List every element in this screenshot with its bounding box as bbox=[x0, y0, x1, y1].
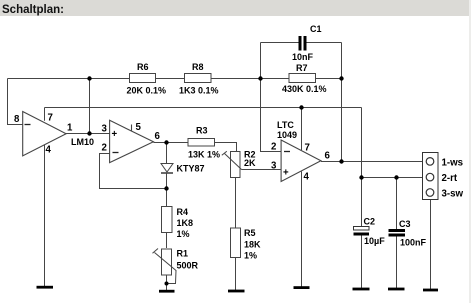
svg-text:7: 7 bbox=[48, 113, 53, 124]
wire C1 left lead bbox=[261, 42, 299, 44]
wire LTC pin7 bbox=[301, 108, 303, 151]
svg-text:+: + bbox=[112, 129, 118, 140]
svg-text:7: 7 bbox=[305, 143, 310, 154]
svg-text:4: 4 bbox=[304, 172, 310, 183]
wire node to connector pin2 bbox=[362, 177, 423, 179]
svg-text:20K 0.1%: 20K 0.1% bbox=[127, 86, 167, 96]
wire U2 output down to KTY87 bbox=[166, 143, 168, 164]
trimmer R2 bbox=[222, 151, 242, 177]
diode KTY87 bbox=[161, 164, 173, 174]
ground (LM10 pin4) bbox=[37, 286, 54, 289]
wire C1 right lead bbox=[307, 42, 342, 44]
wire left vertical to pin 8 bbox=[8, 79, 24, 125]
svg-text:R6: R6 bbox=[137, 62, 149, 72]
wire C3 to ground bbox=[396, 236, 398, 288]
svg-text:10nF: 10nF bbox=[292, 52, 314, 62]
svg-text:R7: R7 bbox=[296, 63, 308, 73]
svg-text:Schaltplan:: Schaltplan: bbox=[2, 4, 64, 16]
svg-text:3: 3 bbox=[102, 124, 108, 135]
node dot U2 output bbox=[164, 140, 168, 144]
op-amp U2 bbox=[110, 120, 154, 162]
svg-text:2K: 2K bbox=[244, 158, 256, 168]
op-amp U1 LM10 bbox=[23, 112, 66, 156]
wire LM10 pin4 to ground bbox=[44, 145, 46, 287]
svg-text:1-ws: 1-ws bbox=[442, 158, 464, 169]
svg-text:R4: R4 bbox=[177, 207, 189, 217]
svg-text:1%: 1% bbox=[244, 251, 257, 261]
svg-text:1%: 1% bbox=[177, 229, 190, 239]
node dot LTC output bbox=[339, 159, 343, 163]
wire R3 to R2 top bbox=[215, 143, 237, 152]
ground (connector) bbox=[423, 289, 438, 292]
svg-text:R8: R8 bbox=[192, 62, 204, 72]
svg-text:KTY87: KTY87 bbox=[177, 164, 205, 174]
svg-text:R3: R3 bbox=[196, 126, 208, 136]
svg-text:2: 2 bbox=[271, 142, 276, 153]
svg-text:C1: C1 bbox=[310, 24, 322, 34]
svg-text:13K 1%: 13K 1% bbox=[188, 150, 220, 160]
node dot C1 left bbox=[258, 76, 262, 80]
node dot C1 right bbox=[339, 76, 343, 80]
node dot R1 wiper bbox=[165, 282, 169, 286]
wire C2 to ground bbox=[361, 236, 363, 289]
wire right vertical C1 node to LTC output bbox=[341, 43, 343, 162]
wire LM10 pin7 tick bbox=[44, 108, 46, 121]
svg-text:100nF: 100nF bbox=[400, 238, 427, 248]
wire R2 to R5 bbox=[235, 178, 237, 229]
svg-text:10µF: 10µF bbox=[364, 236, 385, 246]
resistor R8 bbox=[185, 74, 212, 83]
wire pin7-net down to C2 bbox=[361, 108, 363, 227]
wire down to C3 bbox=[396, 178, 398, 230]
wire LTC pin4 to ground bbox=[301, 172, 303, 288]
trimmer R1 bbox=[153, 249, 177, 284]
node dot LTC pin7 bbox=[299, 105, 303, 109]
wire vertical R6-left to LM10 output bbox=[89, 79, 91, 134]
pin minus (U2) bbox=[113, 152, 119, 154]
wire KTY87 to R4 bbox=[166, 174, 168, 207]
svg-text:430K 0.1%: 430K 0.1% bbox=[282, 84, 327, 94]
svg-text:500R: 500R bbox=[177, 261, 199, 271]
wire main top net (R6/R8/R7 row) bbox=[8, 78, 342, 80]
resistor R4 bbox=[162, 207, 173, 233]
connector J1 bbox=[423, 153, 439, 200]
svg-text:4: 4 bbox=[46, 145, 52, 156]
svg-text:1K8: 1K8 bbox=[177, 218, 194, 228]
page right edge strip bbox=[469, 0, 471, 303]
svg-text:1049: 1049 bbox=[277, 130, 297, 140]
ground (LTC pin4) bbox=[294, 286, 310, 289]
svg-text:LTC: LTC bbox=[277, 120, 294, 130]
wire LTC pin2 up to C1 left node bbox=[261, 43, 282, 152]
svg-text:2-rt: 2-rt bbox=[442, 173, 458, 184]
wire R2 wiper to LTC pin3 bbox=[242, 169, 282, 171]
node dot C3 branch bbox=[394, 175, 398, 179]
svg-text:8: 8 bbox=[14, 114, 20, 125]
svg-text:2: 2 bbox=[102, 143, 107, 154]
pin minus (LTC) bbox=[284, 151, 290, 153]
wire U2 output to R3 bbox=[154, 142, 189, 144]
resistor R6 bbox=[130, 74, 156, 83]
wire R5 to ground bbox=[235, 258, 237, 291]
node dot KTY87 bottom bbox=[164, 186, 168, 190]
svg-text:6: 6 bbox=[155, 131, 161, 142]
capacitor C1 bbox=[299, 36, 307, 51]
resistor R5 bbox=[231, 228, 241, 258]
capacitor C2 bbox=[354, 227, 370, 236]
wire connector pin3 to ground bbox=[430, 200, 432, 290]
svg-text:+: + bbox=[283, 168, 289, 179]
pin minus (LM10) bbox=[25, 124, 31, 126]
node dot LM10 output bbox=[87, 131, 91, 135]
svg-text:3: 3 bbox=[271, 161, 277, 172]
node dot R6 left bbox=[87, 76, 91, 80]
resistor R3 bbox=[188, 139, 215, 147]
ground (C2) bbox=[353, 288, 370, 291]
wire R1 to ground bbox=[166, 275, 168, 290]
svg-text:1: 1 bbox=[67, 123, 73, 134]
wire pin7 horizontal net bbox=[45, 107, 362, 109]
svg-text:1K3 0.1%: 1K3 0.1% bbox=[179, 86, 219, 96]
svg-text:6: 6 bbox=[325, 151, 331, 162]
ground (R5) bbox=[228, 290, 245, 293]
wire R4 to R1 bbox=[166, 233, 168, 249]
op-amp U3 LTC1049 bbox=[281, 140, 321, 182]
ground (C3) bbox=[388, 288, 405, 291]
svg-text:R5: R5 bbox=[244, 228, 256, 238]
svg-text:C2: C2 bbox=[364, 217, 376, 227]
svg-text:C3: C3 bbox=[399, 219, 411, 229]
capacitor C3 bbox=[389, 229, 406, 237]
svg-text:5: 5 bbox=[136, 122, 142, 133]
svg-text:R1: R1 bbox=[177, 249, 189, 259]
resistor R7 bbox=[289, 74, 316, 83]
svg-text:18K: 18K bbox=[244, 240, 261, 250]
header bar bbox=[0, 0, 471, 16]
wire U2 pin2 feedback bbox=[100, 154, 167, 189]
svg-text:3-sw: 3-sw bbox=[442, 189, 464, 200]
node dot C2 branch bbox=[359, 175, 363, 179]
ground (R1) bbox=[159, 290, 175, 293]
svg-text:LM10: LM10 bbox=[71, 137, 94, 147]
wire LTC output to connector pin1 bbox=[321, 161, 423, 163]
wire LM10 output to U2 pin3 bbox=[66, 133, 110, 135]
